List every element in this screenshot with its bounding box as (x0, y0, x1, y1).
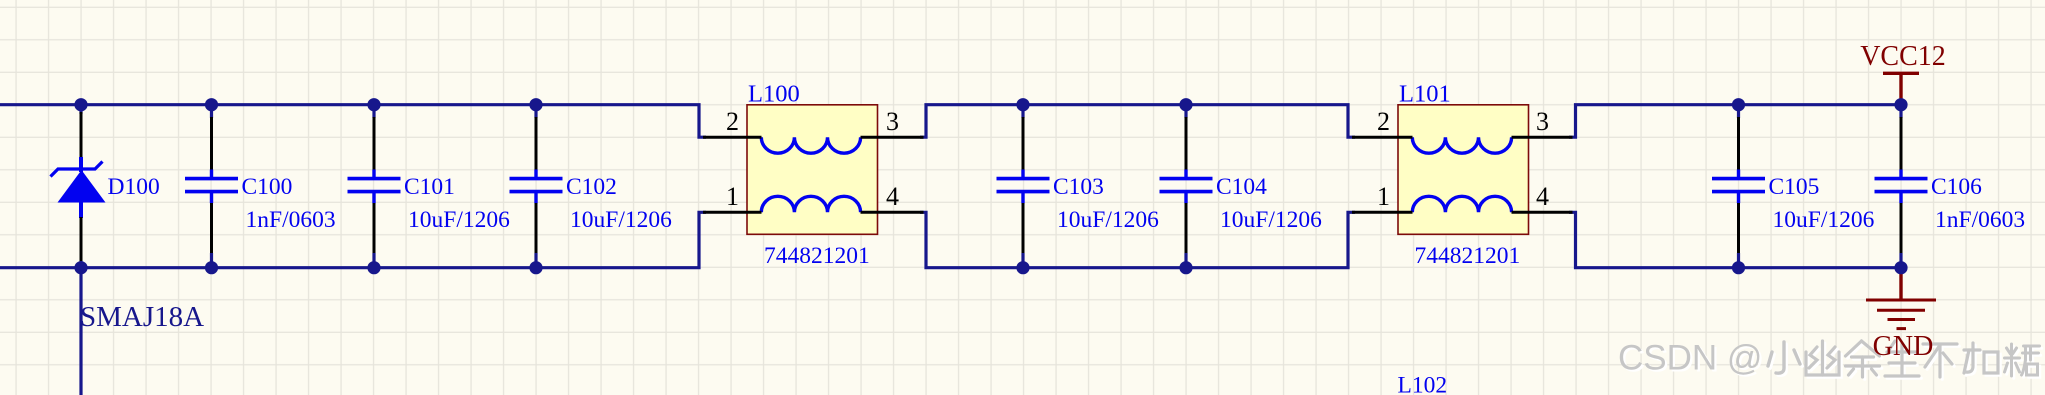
inductor L100 bottom winding (761, 196, 860, 212)
junction C102 top (529, 98, 542, 111)
wire top bus segment 2 (920, 105, 1355, 138)
svg-text:SMAJ18A: SMAJ18A (80, 301, 204, 333)
inductor L100 body (747, 105, 878, 235)
diode D100 (51, 105, 106, 268)
svg-text:3: 3 (1536, 107, 1549, 136)
inductor L101 bottom winding (1412, 196, 1511, 212)
junction C104 bottom (1179, 261, 1192, 274)
svg-text:744821201: 744821201 (764, 243, 870, 269)
capacitor C105 (1712, 105, 1765, 268)
svg-text:10uF/1206: 10uF/1206 (1057, 207, 1159, 233)
junction C102 bottom (529, 261, 542, 274)
power port VCC12 (1883, 73, 1919, 103)
svg-text:10uF/1206: 10uF/1206 (408, 207, 510, 233)
junction C104 top (1179, 98, 1192, 111)
junction C105 top (1732, 98, 1745, 111)
junction D100 bottom (74, 261, 87, 274)
svg-text:L102: L102 (1398, 373, 1448, 395)
wire D100 tail (79, 268, 82, 395)
svg-text:C105: C105 (1769, 174, 1820, 200)
junction D100 top (74, 98, 87, 111)
svg-text:10uF/1206: 10uF/1206 (570, 207, 672, 233)
svg-text:1: 1 (726, 182, 739, 211)
inductor L100 top winding (761, 137, 860, 153)
svg-text:1nF/0603: 1nF/0603 (246, 207, 336, 233)
wire bottom bus segment 1 (0, 212, 706, 267)
L100 pin 4 (861, 211, 924, 214)
wire top bus segment 3 (1569, 105, 1901, 138)
junction C100 bottom (205, 261, 218, 274)
svg-text:C101: C101 (404, 174, 455, 200)
L100 pin 1 (703, 211, 762, 214)
L101 pin 3 (1512, 136, 1573, 139)
junction C106 top (1894, 98, 1907, 111)
svg-text:C106: C106 (1931, 174, 1982, 200)
svg-text:C100: C100 (242, 174, 293, 200)
svg-text:10uF/1206: 10uF/1206 (1773, 207, 1875, 233)
svg-text:1: 1 (1377, 182, 1390, 211)
svg-text:L100: L100 (748, 81, 800, 108)
capacitor C102 (510, 105, 563, 268)
L101 pin 1 (1352, 211, 1413, 214)
junction C101 top (367, 98, 380, 111)
junction C101 bottom (367, 261, 380, 274)
L100 pin 2 (703, 136, 762, 139)
svg-text:1nF/0603: 1nF/0603 (1935, 207, 2025, 233)
svg-text:C103: C103 (1053, 174, 1104, 200)
power port GND (1866, 268, 1936, 329)
wire bottom bus segment 3 (1569, 212, 1901, 267)
junction C100 top (205, 98, 218, 111)
svg-text:GND: GND (1873, 331, 1934, 362)
junction C106 bottom (1894, 261, 1907, 274)
svg-text:2: 2 (1377, 107, 1390, 136)
svg-text:VCC12: VCC12 (1860, 41, 1946, 72)
capacitor C100 (185, 105, 238, 268)
svg-text:L101: L101 (1399, 81, 1451, 108)
wire bottom bus segment 2 (920, 212, 1355, 267)
inductor L101 top winding (1412, 137, 1511, 153)
svg-text:2: 2 (726, 107, 739, 136)
junction C105 bottom (1732, 261, 1745, 274)
svg-text:744821201: 744821201 (1415, 243, 1521, 269)
capacitor C101 (348, 105, 401, 268)
junction C103 bottom (1016, 261, 1029, 274)
capacitor C104 (1160, 105, 1213, 268)
svg-text:3: 3 (886, 107, 899, 136)
capacitor C106 (1875, 105, 1928, 268)
svg-text:4: 4 (1536, 182, 1549, 211)
wire top bus segment 1 (0, 105, 706, 138)
inductor L101 body (1398, 105, 1529, 235)
svg-text:10uF/1206: 10uF/1206 (1220, 207, 1322, 233)
svg-text:4: 4 (886, 182, 899, 211)
L101 pin 4 (1512, 211, 1573, 214)
svg-text:C104: C104 (1216, 174, 1267, 200)
svg-text:D100: D100 (108, 174, 160, 200)
svg-text:CSDN @: CSDN @ (1618, 339, 1762, 378)
L101 pin 2 (1352, 136, 1413, 139)
junction C103 top (1016, 98, 1029, 111)
svg-text:C102: C102 (566, 174, 617, 200)
L100 pin 3 (861, 136, 924, 139)
capacitor C103 (997, 105, 1050, 268)
